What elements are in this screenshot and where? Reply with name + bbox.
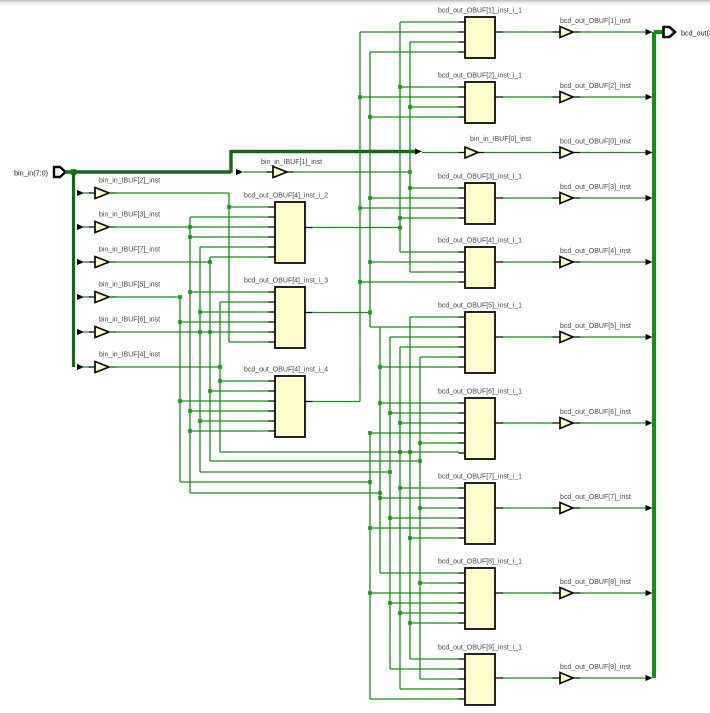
buffer bin_in_IBUF[4]_inst xyxy=(77,352,160,373)
svg-text:bcd_out_OBUF[9]_inst: bcd_out_OBUF[9]_inst xyxy=(560,664,631,671)
buffer bcd_out_OBUF[2]_inst xyxy=(503,83,653,103)
svg-text:bcd_out_OBUF[2]_inst_i_1: bcd_out_OBUF[2]_inst_i_1 xyxy=(438,73,522,80)
bus tap arrow bin_in[1] xyxy=(236,169,243,175)
wire net vertical x400 lower xyxy=(398,347,402,689)
svg-text:bcd_out_OBUF[6]_inst: bcd_out_OBUF[6]_inst xyxy=(560,409,631,416)
buffer bcd_out_OBUF[4]_inst xyxy=(503,248,653,268)
buffer bin_in_IBUF[6]_inst xyxy=(77,317,160,338)
buffer bcd_out_OBUF[7]_inst xyxy=(503,494,653,514)
junction bus port xyxy=(71,169,77,175)
output port bcd_out(3:0) xyxy=(654,27,710,38)
buffer bcd_out_OBUF[8]_inst xyxy=(503,579,653,599)
svg-text:bcd_out_OBUF[7]_inst: bcd_out_OBUF[7]_inst xyxy=(560,494,631,501)
lut bcd_out_OBUF[1]_inst_i_1 xyxy=(438,8,522,59)
svg-text:bin_in(7:0): bin_in(7:0) xyxy=(14,169,48,178)
wire net IBUF1 vertical x410 upper xyxy=(408,42,412,272)
wire IBUF7 out xyxy=(109,261,210,263)
wire box7 input rows xyxy=(370,488,459,538)
svg-text:bin_in_IBUF[2]_inst: bin_in_IBUF[2]_inst xyxy=(99,178,160,185)
svg-text:bcd_out_OBUF[4]_inst_i_1: bcd_out_OBUF[4]_inst_i_1 xyxy=(438,238,522,245)
bus tap arrow bin_in[0] xyxy=(415,148,422,154)
svg-text:bcd_out_OBUF[9]_inst_i_1: bcd_out_OBUF[9]_inst_i_1 xyxy=(438,645,522,652)
svg-text:bcd_out_OBUF[8]_inst_i_1: bcd_out_OBUF[8]_inst_i_1 xyxy=(438,559,522,566)
wire net vertical x190 xyxy=(188,217,382,495)
wire i_4 out xyxy=(312,401,360,403)
svg-text:bcd_out_OBUF[4]_inst: bcd_out_OBUF[4]_inst xyxy=(560,248,631,255)
svg-text:bcd_out_OBUF[7]_inst_i_1: bcd_out_OBUF[7]_inst_i_1 xyxy=(438,474,522,481)
svg-text:bcd_out_OBUF[0]_inst: bcd_out_OBUF[0]_inst xyxy=(560,139,631,146)
svg-text:bin_in_IBUF[0]_inst: bin_in_IBUF[0]_inst xyxy=(470,136,531,143)
wire net IBUF5 vertical x180 xyxy=(109,295,372,484)
svg-text:bcd_out_OBUF[4]_inst_i_4: bcd_out_OBUF[4]_inst_i_4 xyxy=(244,367,328,374)
wire box1 input rows xyxy=(360,22,459,52)
buffer bcd_out_OBUF[9]_inst xyxy=(503,664,653,684)
svg-text:bcd_out_OBUF[8]_inst: bcd_out_OBUF[8]_inst xyxy=(560,579,631,586)
wire bin_in_IBUF[0] out xyxy=(484,152,553,154)
buffer bin_in_IBUF[5]_inst xyxy=(77,282,160,303)
wire box5 input rows xyxy=(370,317,459,367)
wire net vertical x410 lower xyxy=(408,317,412,659)
wire net i_4out vertical x360 xyxy=(358,32,362,402)
svg-text:bin_in_IBUF[1]_inst: bin_in_IBUF[1]_inst xyxy=(261,159,322,166)
svg-text:bin_in_IBUF[5]_inst: bin_in_IBUF[5]_inst xyxy=(99,282,160,289)
wire box8 input rows xyxy=(370,573,459,623)
wire net vertical x420 xyxy=(418,357,422,679)
wire net i_3out vertical x370 upper xyxy=(368,52,372,327)
wire bin_in_IBUF[1] out xyxy=(293,171,410,173)
svg-text:bin_in_IBUF[3]_inst: bin_in_IBUF[3]_inst xyxy=(99,212,160,219)
buffer bcd_out_OBUF[5]_inst xyxy=(503,323,653,343)
lut bcd_out_OBUF[8]_inst_i_1 xyxy=(438,559,522,630)
wire i_3 pin rows xyxy=(109,292,270,332)
svg-text:bcd_out_OBUF[3]_inst_i_1: bcd_out_OBUF[3]_inst_i_1 xyxy=(438,174,522,181)
wire net IBUF4 vertical x220 xyxy=(218,302,459,454)
svg-text:bcd_out_OBUF[4]_inst_i_3: bcd_out_OBUF[4]_inst_i_3 xyxy=(244,278,328,285)
svg-text:bcd_out_OBUF[1]_inst_i_1: bcd_out_OBUF[1]_inst_i_1 xyxy=(438,8,522,15)
wire box3 input rows xyxy=(360,188,459,218)
lut bcd_out_OBUF[5]_inst_i_1 xyxy=(438,303,522,374)
wire net vertical x370 lower xyxy=(368,431,372,699)
svg-text:bcd_out_OBUF[2]_inst: bcd_out_OBUF[2]_inst xyxy=(560,83,631,90)
wire box4 input rows xyxy=(360,252,459,282)
svg-text:bcd_out_OBUF[4]_inst_i_2: bcd_out_OBUF[4]_inst_i_2 xyxy=(244,193,328,200)
wire bus bin_in thick xyxy=(65,151,416,173)
wire i_2 out xyxy=(312,226,402,230)
lut bcd_out_OBUF[7]_inst_i_1 xyxy=(438,474,522,545)
svg-text:bcd_out_OBUF[5]_inst_i_1: bcd_out_OBUF[5]_inst_i_1 xyxy=(438,303,522,310)
lut bcd_out_OBUF[3]_inst_i_1 xyxy=(438,174,522,225)
wire net vertical x380 xyxy=(378,327,382,573)
svg-text:bcd_out_OBUF[5]_inst: bcd_out_OBUF[5]_inst xyxy=(560,323,631,330)
wire box9 input rows xyxy=(370,659,459,699)
wire net vertical x200 xyxy=(198,247,392,474)
wire bcd_out thick vertical xyxy=(652,32,656,678)
lut bcd_out_OBUF[4]_inst_i_2 xyxy=(244,193,328,264)
wire i_4 pin rows xyxy=(180,381,270,431)
lut bcd_out_OBUF[4]_inst_i_1 xyxy=(438,238,522,289)
wire bus vertical thick xyxy=(72,172,75,367)
wire box6 input rows xyxy=(370,403,459,443)
wire IBUF4 out xyxy=(109,366,220,368)
wire i_3 out xyxy=(312,311,372,315)
buffer bin_in_IBUF[0]_inst xyxy=(422,136,531,158)
wire box2 input rows xyxy=(360,87,459,117)
svg-text:bcd_out_OBUF[6]_inst_i_1: bcd_out_OBUF[6]_inst_i_1 xyxy=(438,389,522,396)
lut bcd_out_OBUF[6]_inst_i_1 xyxy=(438,389,522,460)
buffer bin_in_IBUF[2]_inst xyxy=(77,178,160,199)
lut bcd_out_OBUF[4]_inst_i_4 xyxy=(244,367,328,438)
svg-text:bin_in_IBUF[4]_inst: bin_in_IBUF[4]_inst xyxy=(99,352,160,359)
input port bin_in(7:0) xyxy=(14,167,65,178)
lut bcd_out_OBUF[2]_inst_i_1 xyxy=(438,73,522,124)
wire net IBUF7 vertical x210 xyxy=(208,257,422,463)
lut bcd_out_OBUF[9]_inst_i_1 xyxy=(438,645,522,706)
buffer bin_in_IBUF[3]_inst xyxy=(77,212,160,233)
wire net i_2out vertical x400 upper xyxy=(398,22,402,252)
svg-text:bcd_out(3:0): bcd_out(3:0) xyxy=(681,29,710,38)
buffer bcd_out_OBUF[3]_inst xyxy=(503,184,653,204)
svg-text:bin_in_IBUF[7]_inst: bin_in_IBUF[7]_inst xyxy=(99,247,160,254)
svg-text:bcd_out_OBUF[3]_inst: bcd_out_OBUF[3]_inst xyxy=(560,184,631,191)
buffer bin_in_IBUF[7]_inst xyxy=(77,247,160,268)
buffer bcd_out_OBUF[1]_inst xyxy=(503,18,653,38)
svg-text:bcd_out_OBUF[1]_inst: bcd_out_OBUF[1]_inst xyxy=(560,18,631,25)
svg-text:bin_in_IBUF[6]_inst: bin_in_IBUF[6]_inst xyxy=(99,317,160,324)
buffer bcd_out_OBUF[0]_inst xyxy=(553,139,653,159)
lut bcd_out_OBUF[4]_inst_i_3 xyxy=(244,278,328,349)
wire net IBUF2 vertical x229 xyxy=(109,193,270,342)
buffer bcd_out_OBUF[6]_inst xyxy=(503,409,653,429)
buffer bin_in_IBUF[1]_inst xyxy=(243,159,322,178)
wire i_2 pin rows xyxy=(109,207,270,257)
wire net vertical x390 xyxy=(388,337,392,669)
